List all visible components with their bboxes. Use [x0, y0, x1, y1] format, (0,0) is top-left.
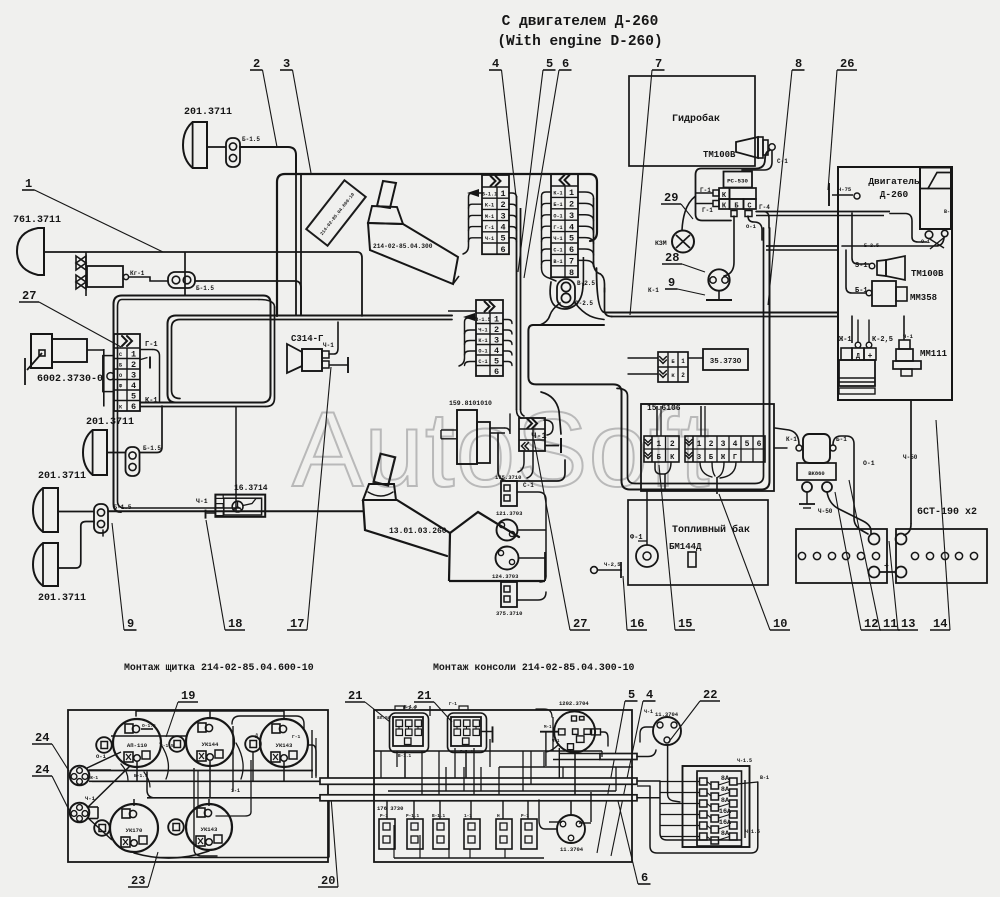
svg-text:4: 4: [492, 57, 499, 71]
svg-text:5: 5: [745, 440, 750, 449]
svg-text:Ч-1: Ч-1: [323, 342, 334, 349]
svg-text:121.3703: 121.3703: [496, 510, 523, 517]
svg-text:4: 4: [646, 688, 653, 702]
svg-text:К-2,5: К-2,5: [872, 336, 893, 344]
svg-text:К-1: К-1: [786, 436, 797, 443]
svg-text:16А: 16А: [719, 819, 732, 827]
svg-text:19: 19: [181, 689, 195, 703]
svg-text:К-1: К-1: [478, 338, 487, 344]
svg-text:О-1.5: О-1.5: [142, 723, 156, 729]
svg-text:М-1: М-1: [544, 726, 552, 730]
svg-text:28: 28: [665, 251, 679, 265]
svg-text:Двигатель: Двигатель: [868, 176, 920, 187]
svg-text:Монтаж щитка 214-02-85.04.600-: Монтаж щитка 214-02-85.04.600-10: [124, 662, 314, 673]
svg-text:29: 29: [664, 191, 678, 205]
svg-text:Г-1: Г-1: [702, 207, 713, 214]
svg-text:201.3711: 201.3711: [38, 593, 86, 604]
svg-text:8: 8: [569, 268, 574, 278]
svg-text:Г-1: Г-1: [449, 702, 457, 707]
svg-text:17: 17: [290, 617, 304, 631]
svg-text:С314-Г: С314-Г: [291, 334, 324, 344]
svg-text:С: С: [747, 203, 751, 211]
svg-text:К-1: К-1: [648, 287, 659, 294]
svg-text:Ч-1: Ч-1: [531, 431, 546, 441]
svg-text:В-1: В-1: [944, 209, 953, 215]
svg-text:159.8101010: 159.8101010: [449, 400, 492, 407]
svg-text:761.3711: 761.3711: [13, 215, 61, 226]
svg-text:Монтаж консоли 214-02-85.04.30: Монтаж консоли 214-02-85.04.300-10: [433, 662, 635, 673]
svg-text:К-1: К-1: [553, 191, 562, 197]
svg-text:6СТ-190 х2: 6СТ-190 х2: [917, 507, 977, 518]
svg-text:К-1: К-1: [145, 397, 158, 405]
svg-text:Ч-1: Ч-1: [644, 709, 653, 715]
svg-text:+: +: [884, 562, 889, 571]
svg-text:Топливный бак: Топливный бак: [672, 523, 750, 536]
svg-text:АП-110: АП-110: [127, 742, 148, 749]
svg-text:С-1: С-1: [553, 248, 562, 254]
svg-text:Ж-1: Ж-1: [839, 336, 852, 344]
svg-text:О-1: О-1: [746, 223, 757, 230]
svg-text:Б-2.5: Б-2.5: [864, 243, 879, 249]
svg-text:6: 6: [494, 367, 499, 377]
svg-text:3: 3: [721, 440, 726, 449]
svg-text:Б-1.5: Б-1.5: [242, 136, 260, 143]
svg-text:В-1.5: В-1.5: [160, 743, 174, 749]
svg-text:11: 11: [883, 617, 897, 631]
svg-text:УК143: УК143: [276, 742, 293, 749]
svg-text:Ч-50: Ч-50: [818, 508, 833, 515]
svg-text:5: 5: [569, 234, 574, 244]
svg-text:1: 1: [656, 440, 661, 449]
svg-text:1: 1: [25, 177, 32, 191]
svg-text:Г-1: Г-1: [292, 734, 301, 740]
svg-text:ВК860: ВК860: [808, 470, 825, 477]
svg-text:201.3711: 201.3711: [86, 417, 134, 428]
svg-text:18: 18: [228, 617, 242, 631]
svg-text:11.3704: 11.3704: [560, 846, 584, 853]
svg-text:16: 16: [630, 617, 644, 631]
svg-text:В-1: В-1: [760, 775, 769, 781]
svg-text:В-1.1: В-1.1: [482, 191, 498, 197]
svg-text:Ч-1: Ч-1: [196, 498, 208, 505]
svg-text:Ч-1: Ч-1: [485, 236, 494, 242]
svg-text:Г-1: Г-1: [485, 225, 494, 231]
svg-text:1: 1: [681, 358, 685, 365]
svg-text:С-1: С-1: [523, 482, 534, 489]
svg-text:214-02-85.04.300: 214-02-85.04.300: [373, 243, 433, 250]
svg-text:8Л.5А: 8Л.5А: [377, 715, 391, 721]
svg-text:9: 9: [668, 276, 675, 290]
svg-text:БМ144Д: БМ144Д: [669, 542, 702, 552]
svg-text:Ч-2,5: Ч-2,5: [604, 561, 621, 568]
svg-text:16.3714: 16.3714: [234, 484, 268, 493]
svg-text:Б: Б: [119, 362, 122, 368]
svg-text:3: 3: [131, 370, 136, 380]
svg-text:С-1: С-1: [777, 158, 788, 165]
svg-text:Г: Г: [733, 454, 737, 462]
svg-text:2: 2: [681, 372, 685, 379]
svg-text:1: 1: [569, 188, 574, 198]
svg-text:Ч-50: Ч-50: [903, 454, 918, 461]
svg-text:23: 23: [131, 874, 145, 888]
svg-text:4: 4: [500, 223, 505, 233]
svg-text:201.3711: 201.3711: [38, 471, 86, 482]
svg-text:Б-1.5: Б-1.5: [143, 445, 161, 452]
svg-text:УК144: УК144: [202, 741, 219, 748]
svg-text:20: 20: [321, 874, 335, 888]
svg-text:Г-1: Г-1: [145, 341, 158, 349]
svg-text:З: З: [697, 454, 701, 462]
svg-text:Кг-1: Кг-1: [130, 270, 145, 277]
svg-text:О-1: О-1: [553, 213, 562, 219]
svg-text:С-1: С-1: [478, 359, 487, 365]
svg-text:22: 22: [703, 688, 717, 702]
svg-text:24: 24: [35, 763, 49, 777]
svg-text:Ч-1.5: Ч-1.5: [745, 829, 760, 835]
svg-text:РС-530: РС-530: [727, 178, 748, 185]
svg-text:5: 5: [628, 688, 635, 702]
svg-text:С: С: [119, 352, 122, 358]
svg-text:В-1: В-1: [553, 259, 562, 265]
svg-text:175.3710: 175.3710: [495, 474, 521, 481]
svg-text:11.3704: 11.3704: [655, 711, 679, 718]
svg-text:1: 1: [494, 314, 499, 324]
svg-text:15.6106: 15.6106: [647, 404, 681, 413]
svg-text:3: 3: [569, 211, 574, 221]
svg-text:13.01.03.260: 13.01.03.260: [389, 527, 447, 536]
svg-text:21: 21: [348, 689, 362, 703]
svg-text:Д: Д: [255, 733, 258, 739]
svg-text:В-1.5: В-1.5: [475, 317, 491, 323]
svg-text:КЗМ: КЗМ: [655, 240, 667, 247]
svg-text:Г-1: Г-1: [553, 225, 562, 231]
svg-text:35.373О: 35.373О: [710, 358, 742, 366]
svg-text:6: 6: [757, 440, 762, 449]
svg-text:6: 6: [562, 57, 569, 71]
svg-text:3: 3: [494, 335, 499, 345]
svg-text:15: 15: [678, 617, 692, 631]
svg-text:6: 6: [641, 871, 648, 885]
svg-text:14: 14: [933, 617, 947, 631]
svg-text:1: 1: [131, 349, 136, 359]
svg-text:ММ358: ММ358: [910, 293, 937, 303]
svg-text:ТМ100В: ТМ100В: [911, 269, 944, 279]
svg-text:176 3730: 176 3730: [377, 805, 403, 812]
svg-text:26: 26: [840, 57, 854, 71]
svg-text:27: 27: [22, 289, 36, 303]
svg-text:9: 9: [127, 617, 134, 631]
svg-text:13: 13: [901, 617, 915, 631]
svg-text:О-1: О-1: [478, 348, 487, 354]
svg-text:Ч-1: Ч-1: [478, 327, 487, 333]
svg-text:2: 2: [670, 440, 675, 449]
svg-text:1202.3704: 1202.3704: [559, 700, 589, 707]
svg-text:124.3703: 124.3703: [492, 573, 519, 580]
svg-text:6: 6: [569, 245, 574, 255]
svg-text:5: 5: [546, 57, 553, 71]
svg-text:К-1: К-1: [485, 203, 494, 209]
svg-text:7: 7: [569, 256, 574, 266]
svg-text:Р-1: Р-1: [521, 814, 529, 819]
svg-text:12: 12: [864, 617, 878, 631]
svg-text:7: 7: [655, 57, 662, 71]
svg-text:10: 10: [773, 617, 787, 631]
svg-text:6: 6: [500, 245, 505, 255]
svg-text:4: 4: [733, 440, 738, 449]
svg-text:2: 2: [709, 440, 714, 449]
svg-text:5: 5: [494, 356, 499, 366]
svg-text:ММ111: ММ111: [920, 349, 948, 359]
svg-text:Ч-1.5: Ч-1.5: [737, 758, 752, 764]
svg-text:21: 21: [417, 689, 431, 703]
svg-text:(With engine D-260): (With engine D-260): [497, 34, 662, 50]
svg-text:ТМ100В: ТМ100В: [703, 150, 736, 160]
svg-text:1-1: 1-1: [231, 788, 240, 794]
svg-text:Гидробак: Гидробак: [672, 112, 720, 125]
svg-text:Ч-75: Ч-75: [838, 186, 852, 193]
svg-text:В-2.5: В-2.5: [577, 280, 595, 287]
svg-text:4: 4: [131, 381, 136, 391]
svg-text:2: 2: [131, 360, 136, 370]
svg-text:С двигателем Д-260: С двигателем Д-260: [502, 14, 659, 30]
svg-text:1-1: 1-1: [464, 814, 472, 819]
svg-text:Д-260: Д-260: [880, 189, 909, 200]
svg-text:6: 6: [131, 402, 136, 412]
svg-text:Ж-1: Ж-1: [90, 775, 98, 781]
svg-text:4: 4: [569, 222, 574, 232]
svg-text:3: 3: [500, 211, 505, 221]
svg-text:Г-4: Г-4: [759, 204, 770, 211]
svg-text:Р-1: Р-1: [380, 814, 388, 819]
svg-text:М-1: М-1: [485, 214, 494, 220]
svg-text:1: 1: [500, 189, 505, 199]
svg-text:375.3710: 375.3710: [496, 610, 522, 617]
svg-text:УК170: УК170: [126, 827, 143, 834]
svg-text:Н: Н: [497, 814, 500, 819]
svg-text:Ч-1: Ч-1: [553, 236, 562, 242]
svg-text:5: 5: [500, 234, 505, 244]
svg-text:Б-1.5: Б-1.5: [196, 285, 214, 292]
svg-text:О: О: [119, 373, 122, 379]
svg-text:16А: 16А: [719, 808, 732, 816]
svg-text:5: 5: [131, 391, 136, 401]
svg-text:8: 8: [795, 57, 802, 71]
svg-text:201.3711: 201.3711: [184, 107, 232, 118]
svg-text:В-1.1: В-1.1: [432, 814, 446, 819]
svg-text:2: 2: [500, 200, 505, 210]
svg-text:1: 1: [697, 440, 702, 449]
svg-text:2: 2: [494, 325, 499, 335]
svg-text:6002.3730-0: 6002.3730-0: [37, 374, 103, 385]
svg-text:4: 4: [494, 346, 499, 356]
svg-text:В-1.5: В-1.5: [404, 705, 418, 710]
svg-text:3: 3: [283, 57, 290, 71]
svg-text:Б-1: Б-1: [553, 202, 562, 208]
svg-text:24: 24: [35, 731, 49, 745]
svg-text:Р-1.1: Р-1.1: [406, 814, 420, 819]
svg-text:27: 27: [573, 617, 587, 631]
svg-text:2: 2: [569, 199, 574, 209]
svg-text:О-1: О-1: [863, 460, 875, 467]
svg-text:О-1: О-1: [921, 239, 930, 245]
svg-text:УК143: УК143: [201, 826, 218, 833]
svg-text:2: 2: [253, 57, 260, 71]
